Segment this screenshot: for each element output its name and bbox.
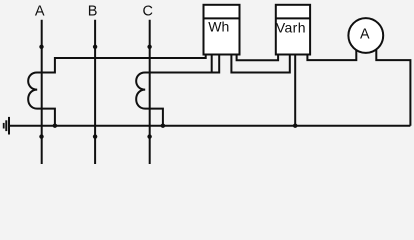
junction dot CT-A jog to bus bbox=[53, 124, 57, 128]
CT coil on phase C bbox=[136, 73, 163, 126]
junction dot Varh to bus bbox=[293, 124, 297, 128]
phase C line bbox=[149, 20, 151, 164]
CT coil on phase A bbox=[28, 73, 55, 126]
phase B line bbox=[94, 20, 96, 164]
node dot phase C top bbox=[147, 45, 151, 49]
ammeter A bbox=[348, 18, 383, 53]
meter Varh box bbox=[276, 5, 310, 55]
wire W4 (Wh terminal 4 to Varh terminal 1) bbox=[237, 55, 279, 61]
Wh terminal 2a stub bbox=[211, 55, 213, 73]
phase A line bbox=[41, 20, 43, 164]
node dot phase B bottom bbox=[93, 134, 97, 138]
wire W1 (CT-A secondary to Wh terminal 1) bbox=[37, 55, 206, 73]
svg-text:Varh: Varh bbox=[276, 19, 306, 35]
wire ammeter to bus right edge bbox=[376, 49, 410, 126]
svg-text:Wh: Wh bbox=[208, 19, 229, 35]
node dot phase B top bbox=[93, 45, 97, 49]
svg-text:A: A bbox=[360, 27, 370, 43]
wire W2 (CT-C secondary to Wh terminal 2) bbox=[145, 55, 219, 73]
svg-text:B: B bbox=[88, 4, 98, 20]
node dot phase A top bbox=[39, 45, 43, 49]
ground bbox=[4, 117, 9, 135]
wire W3 (Wh terminal 3 to Varh terminal 2a) bbox=[231, 55, 289, 73]
junction dot CT-C jog to bus bbox=[161, 124, 165, 128]
node dot phase C bottom bbox=[147, 134, 151, 138]
node dot phase A bottom bbox=[39, 134, 43, 138]
wire W5 (Varh terminal 4 to ammeter) bbox=[307, 49, 356, 60]
bus (grounded secondary common) bbox=[9, 125, 410, 127]
svg-text:C: C bbox=[142, 4, 152, 20]
meter Wh box bbox=[204, 5, 240, 55]
svg-text:A: A bbox=[35, 4, 45, 20]
wire W6 (Varh terminal 2b down to bus) bbox=[294, 55, 296, 126]
